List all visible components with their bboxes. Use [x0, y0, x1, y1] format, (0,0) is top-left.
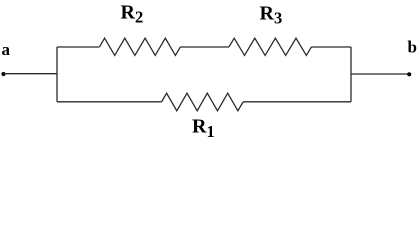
wire R3 to right rail [312, 46, 352, 48]
svg-text:a: a [2, 40, 11, 59]
node b [407, 72, 411, 76]
wire right rail to b [351, 73, 409, 75]
resistor R1 [162, 93, 244, 111]
svg-text:b: b [408, 38, 417, 57]
wire a to left rail [4, 73, 58, 75]
wire R1 to right rail [243, 101, 351, 103]
wire right rail [350, 47, 352, 102]
resistor R2 [100, 38, 181, 55]
svg-text:R1: R1 [192, 116, 215, 142]
svg-text:R3: R3 [260, 2, 283, 27]
svg-text:R2: R2 [121, 1, 144, 26]
wire left rail [56, 47, 58, 102]
wire R2 to R3 [181, 46, 230, 48]
wire top-left to R2 [57, 46, 100, 48]
resistor R3 [229, 38, 312, 55]
wire bottom-left to R1 [57, 101, 162, 103]
node a [1, 72, 5, 76]
